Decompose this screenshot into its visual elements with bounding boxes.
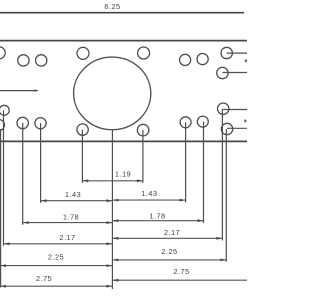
svg-text:6.25: 6.25 bbox=[104, 2, 120, 11]
svg-text:1.78: 1.78 bbox=[63, 213, 79, 222]
svg-text:1.43: 1.43 bbox=[141, 189, 157, 198]
svg-text:2.25: 2.25 bbox=[48, 253, 64, 262]
svg-text:2.75: 2.75 bbox=[173, 267, 189, 276]
svg-text:2.17: 2.17 bbox=[164, 228, 180, 237]
svg-text:1.19: 1.19 bbox=[115, 170, 131, 179]
svg-text:2.25: 2.25 bbox=[161, 247, 177, 256]
svg-text:1.78: 1.78 bbox=[149, 212, 165, 221]
svg-text:2.75: 2.75 bbox=[36, 274, 52, 283]
svg-text:1.43: 1.43 bbox=[65, 190, 81, 199]
svg-text:2.17: 2.17 bbox=[59, 233, 75, 242]
